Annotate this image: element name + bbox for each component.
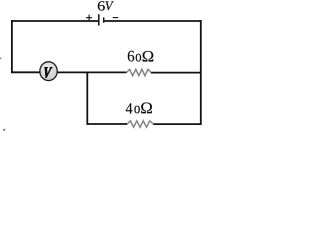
wire bottom left (junction to resistor R2) (87, 123, 128, 125)
wire left vertical (11, 20, 13, 73)
wire top right (battery - plate to right corner) (104, 20, 202, 22)
wire top left (left corner to battery + plate) (11, 20, 98, 22)
resistor R2 value label 4oΩ (126, 103, 152, 114)
wire bottom right (resistor R2 to right corner) (153, 123, 201, 125)
battery - polarity sign (113, 17, 119, 19)
battery B1 long plate (+) (98, 14, 100, 25)
node junction wire (middle wire down to bottom wire) (86, 72, 88, 125)
battery B1 short plate (-) (103, 17, 105, 22)
resistor R2 zigzag (127, 121, 153, 127)
resistor R1 value label 6oΩ (128, 51, 154, 62)
wire resistor R1 to right wire (151, 72, 202, 74)
voltmeter V body (40, 62, 57, 81)
stray dash mark left edge (0, 58, 1, 59)
wire right vertical (200, 20, 202, 125)
stray dot mark bottom left (3, 129, 5, 131)
voltmeter V letter (45, 67, 53, 78)
wire middle right (voltmeter to resistor R1) (56, 71, 127, 73)
battery value label 6V (98, 1, 114, 10)
battery + polarity sign (86, 15, 92, 21)
wire middle left (left wire to voltmeter) (11, 71, 41, 73)
resistor R1 zigzag (127, 69, 151, 75)
